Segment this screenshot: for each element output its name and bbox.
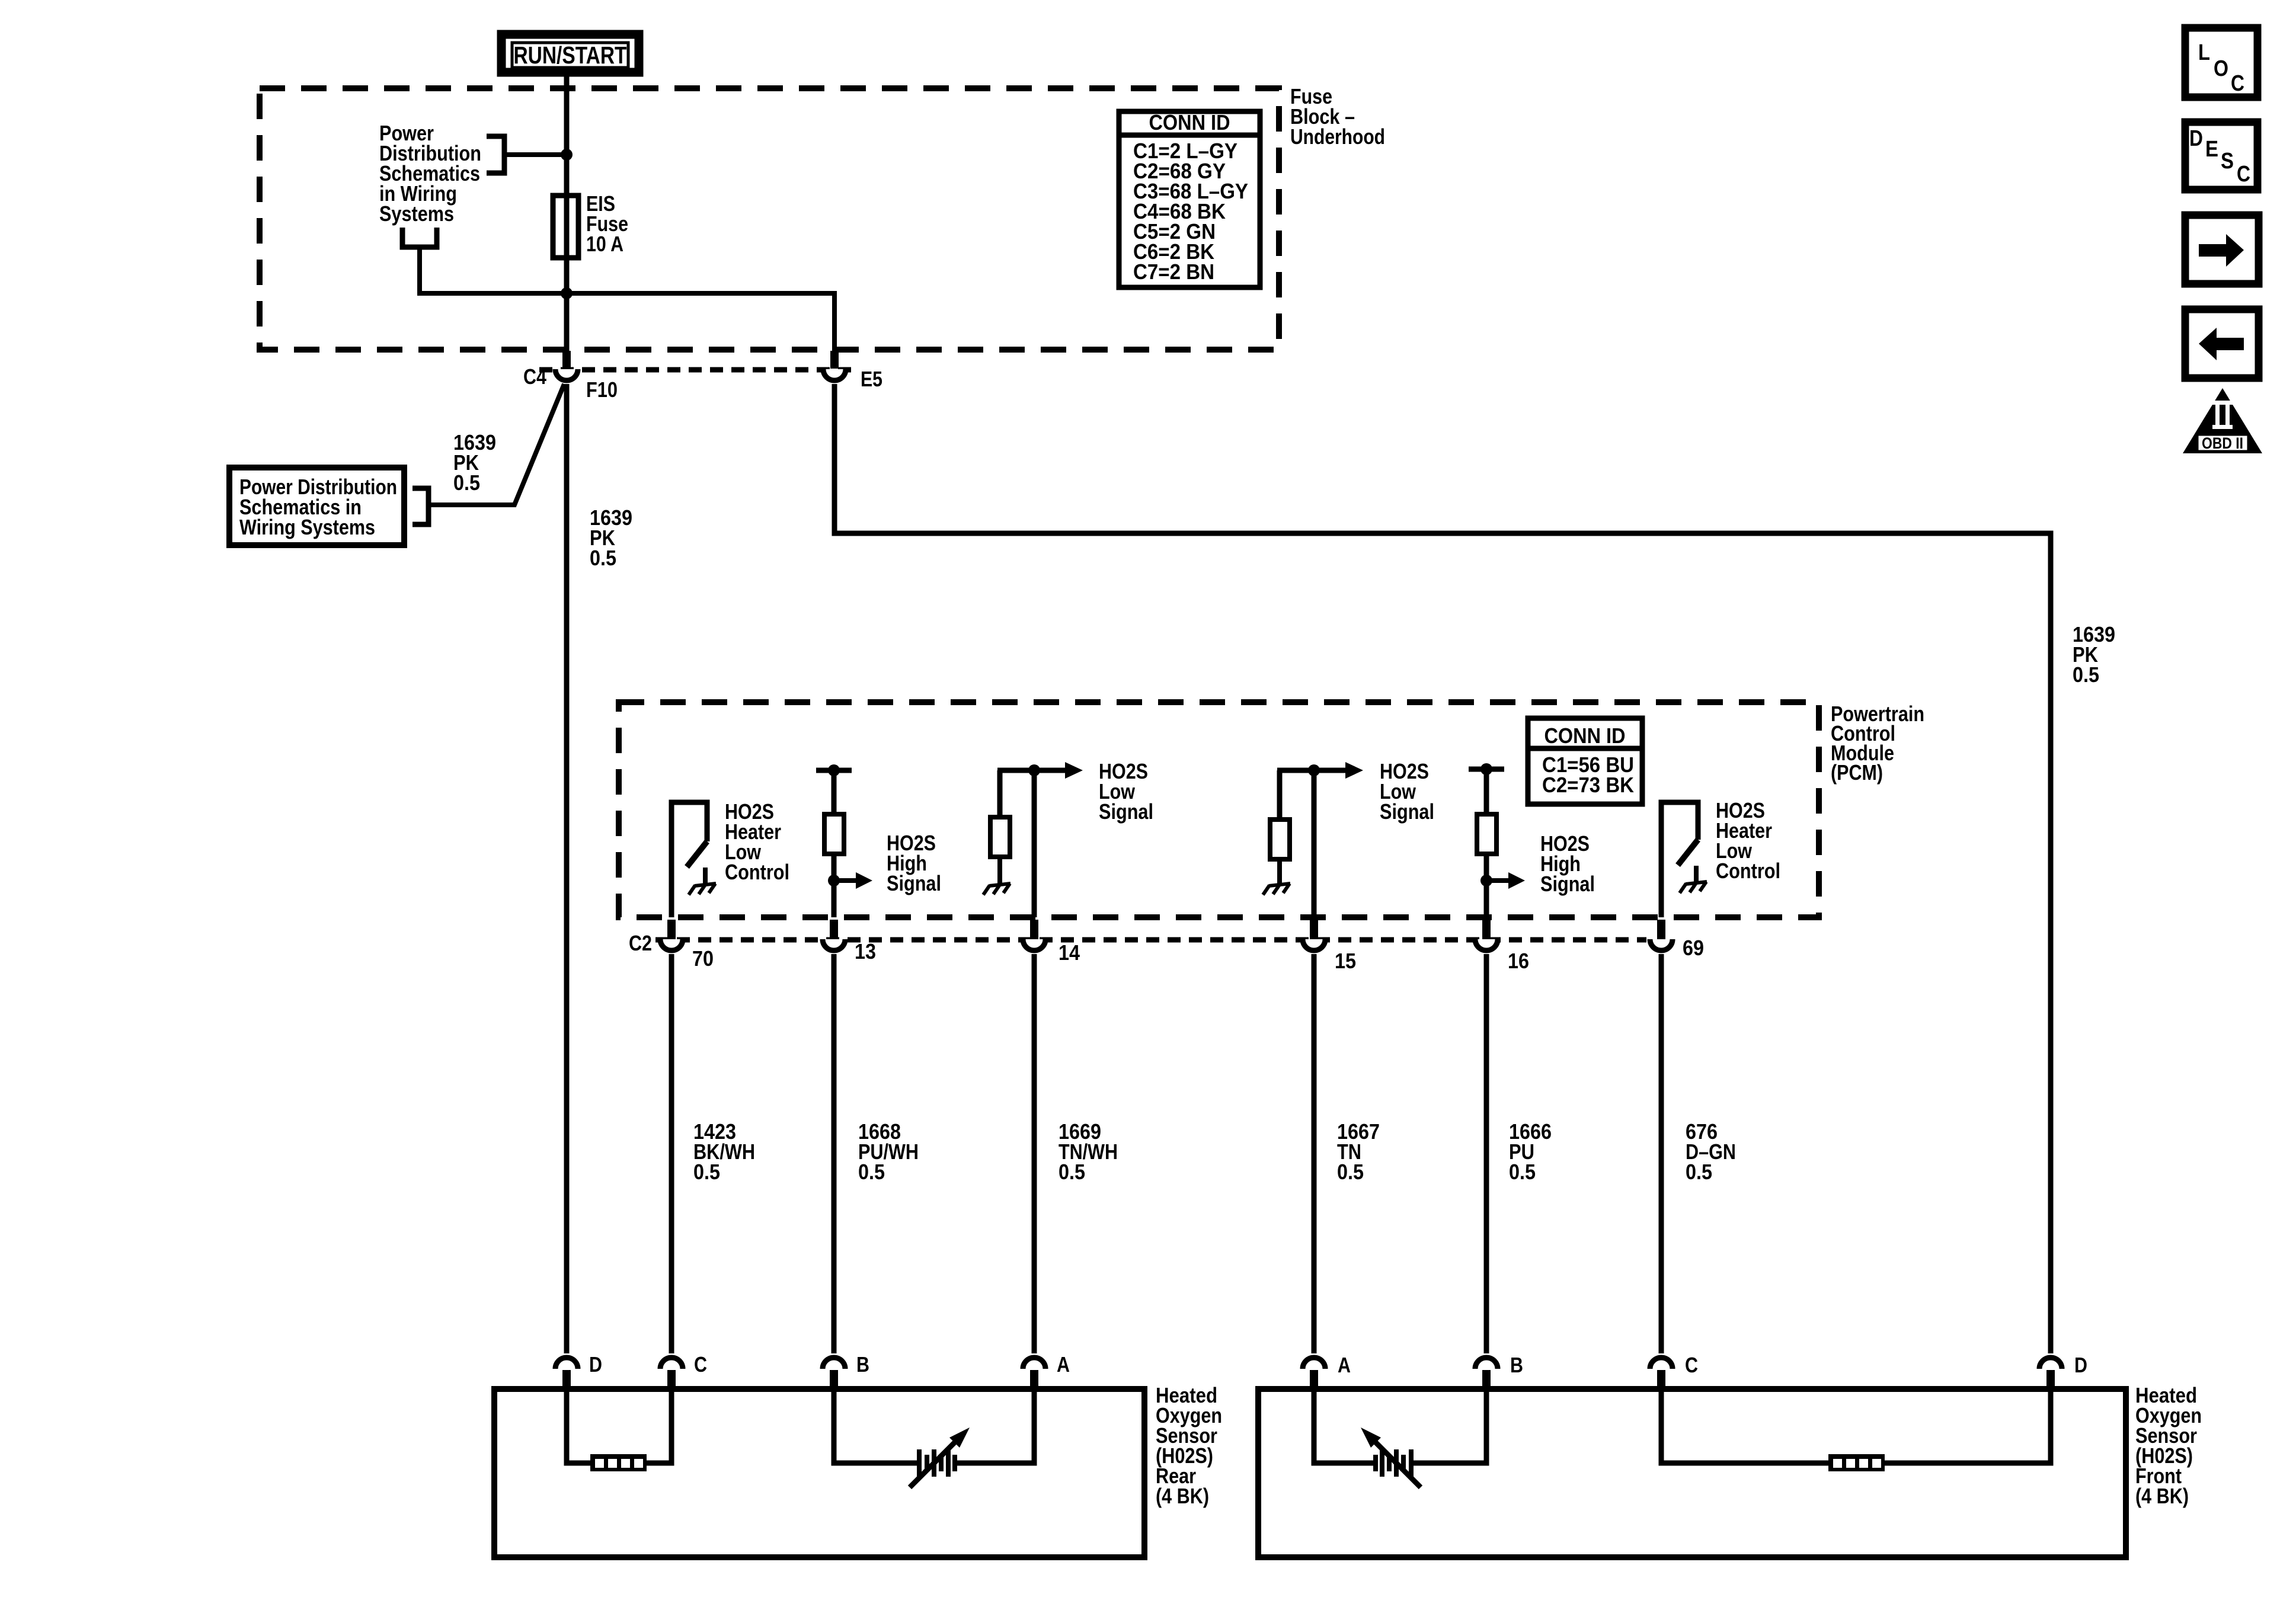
wire from bracket down to fuse output node: [420, 247, 567, 293]
connector C4 pin stub: [562, 351, 571, 369]
signal arrow pin 16: [1486, 872, 1525, 889]
svg-text:F10: F10: [586, 377, 618, 402]
svg-text:B: B: [856, 1352, 869, 1377]
label Powertrain Control Module (PCM): [1831, 702, 1924, 785]
svg-text:(PCM): (PCM): [1831, 760, 1883, 785]
PCM dashed box: [619, 702, 1819, 917]
node junction at power distribution tap: [561, 149, 573, 161]
svg-text:D: D: [2074, 1353, 2087, 1377]
svg-text:0.5: 0.5: [453, 470, 480, 495]
ground symbol pin 15: [1263, 884, 1290, 895]
wire pin 14 inside PCM: [1032, 770, 1037, 917]
svg-text:0.5: 0.5: [1686, 1160, 1712, 1184]
ground symbol pin 14: [983, 884, 1011, 895]
resistor pin 15: [1270, 820, 1290, 859]
resistor pin 13: [824, 814, 844, 854]
switch HO2S heater low control left (pin 70): [671, 802, 707, 917]
connector C2 cavity 13: [823, 920, 845, 950]
label Power Distribution Schematics in Wiring Systems: [379, 121, 481, 226]
sensing element rear sensor bars: [919, 1449, 955, 1477]
label wire 1667 TN 0.5: [1337, 1119, 1380, 1184]
svg-text:A: A: [1057, 1352, 1070, 1377]
label Heated Oxygen Sensor rear: [1156, 1383, 1222, 1508]
label EIS Fuse 10 A: [586, 191, 628, 256]
ground stub pin 14: [997, 857, 1002, 884]
svg-text:D: D: [589, 1352, 602, 1377]
connector C2 cavity 14: [1023, 920, 1045, 950]
terminal bar pin 16: [1469, 767, 1504, 772]
signal arrow pin 13: [834, 872, 872, 889]
svg-text:CONN ID: CONN ID: [1544, 724, 1626, 748]
connector boundary dotted line C4 to E5: [539, 367, 858, 373]
connector E5 arc: [823, 369, 846, 380]
svg-text:13: 13: [855, 939, 876, 964]
svg-text:Signal: Signal: [1380, 799, 1434, 824]
callout box Power Distribution Schematics in Wiring Systems: [229, 468, 404, 545]
label Heated Oxygen Sensor front: [2135, 1383, 2202, 1508]
label Fuse Block Underhood: [1290, 84, 1385, 149]
ground symbol right switch: [1680, 882, 1707, 893]
svg-text:0.5: 0.5: [1059, 1160, 1085, 1184]
signal arrow pin 15: [1345, 762, 1363, 779]
connector cavity rear sensor B: [823, 1358, 845, 1390]
svg-text:C7=2 BN: C7=2 BN: [1133, 260, 1214, 284]
heater element rear sensor wires: [567, 1389, 671, 1463]
svg-text:15: 15: [1335, 949, 1356, 973]
svg-text:C: C: [2231, 71, 2244, 96]
resistor pin 16: [1477, 814, 1496, 854]
connector E5 pin stub: [830, 351, 839, 369]
icon DESC box: [2185, 122, 2257, 190]
svg-text:0.5: 0.5: [858, 1160, 885, 1184]
svg-text:CONN ID: CONN ID: [1149, 110, 1230, 135]
svg-text:C: C: [694, 1352, 707, 1377]
wire 1639 PK from E5 across top to HO2S front pin D: [834, 384, 2051, 1353]
heater element front sensor: [1828, 1454, 1885, 1471]
connector cavity rear sensor A: [1023, 1358, 1045, 1390]
wire fuse output to E5 drop: [567, 293, 834, 352]
label HO2S Low Signal pin 15: [1380, 759, 1434, 824]
svg-text:Control: Control: [725, 860, 789, 884]
svg-text:Underhood: Underhood: [1290, 124, 1385, 149]
label wire 676 D-GN 0.5: [1686, 1119, 1736, 1184]
svg-text:C: C: [2237, 162, 2250, 187]
sensing element rear sensor arrow: [910, 1427, 970, 1487]
svg-text:Control: Control: [1716, 859, 1780, 883]
node junction at fuse output: [561, 287, 573, 299]
node dot pin 13 top: [828, 764, 840, 776]
connector cavity rear sensor D: [555, 1358, 578, 1390]
pull resistor leg pin 14: [997, 770, 1003, 818]
svg-text:(4 BK): (4 BK): [1156, 1484, 1209, 1508]
fuse block underhood dashed box: [260, 88, 1279, 350]
label wire 1639 PK 0.5 branch: [453, 430, 496, 495]
icon LOC box: [2185, 28, 2257, 97]
connector boundary dotted line C2: [655, 937, 1646, 943]
wire 676 D-GN pin69 to front sensor C: [1659, 954, 1664, 1353]
svg-text:A: A: [1338, 1353, 1351, 1377]
svg-text:0.5: 0.5: [1337, 1160, 1364, 1184]
connector cavity front sensor A: [1303, 1358, 1325, 1390]
connector C2 cavity 16: [1475, 920, 1498, 950]
svg-text:E5: E5: [861, 367, 882, 391]
CONN ID table PCM: [1528, 718, 1642, 804]
label wire 1423 BK/WH 0.5: [693, 1119, 755, 1184]
icon forward arrow box: [2185, 215, 2259, 284]
pull resistor leg pin 15: [1277, 770, 1283, 820]
power source box RUN/START: [501, 34, 639, 72]
ground symbol left switch: [689, 884, 716, 895]
sensing element front sensor bars: [1376, 1449, 1411, 1477]
connector cavity front sensor B: [1475, 1358, 1498, 1390]
CONN ID table fuse block: [1119, 110, 1260, 287]
svg-text:E: E: [2205, 137, 2218, 162]
wire 1666 PU pin16 to front sensor B: [1484, 954, 1489, 1353]
heater element front sensor wires: [1661, 1389, 2051, 1463]
node dot pin 13 arrow: [828, 875, 840, 886]
node dot pin 14: [1028, 764, 1040, 776]
wire 1669 TN/WH pin14 to rear sensor A: [1032, 954, 1037, 1353]
resistor pin 14: [990, 817, 1010, 857]
svg-text:16: 16: [1508, 949, 1529, 973]
top rail pin 15: [1277, 768, 1346, 773]
svg-text:0.5: 0.5: [590, 546, 616, 570]
svg-text:C2: C2: [629, 931, 652, 955]
bracket to power distribution box: [412, 488, 428, 524]
svg-text:0.5: 0.5: [693, 1160, 720, 1184]
icon back arrow box: [2185, 309, 2259, 378]
sensing element rear sensor wires: [834, 1389, 1034, 1463]
switch blade left: [687, 841, 707, 867]
svg-text:C2=73 BK: C2=73 BK: [1542, 773, 1634, 797]
label HO2S Low Signal pin 14: [1099, 759, 1153, 824]
wire 1639 PK from C4 to HO2S rear pin D: [564, 384, 570, 1353]
svg-text:Signal: Signal: [887, 871, 941, 895]
svg-text:L: L: [2198, 40, 2210, 65]
svg-text:B: B: [1510, 1353, 1523, 1377]
wire pin 16 inside PCM: [1484, 769, 1489, 917]
bracket to Power Distribution Schematics callout: [487, 136, 504, 173]
connector C4 cavity F10 arc: [555, 369, 578, 380]
icon OBD II triangle: [2183, 388, 2262, 453]
connector cavity front sensor C: [1650, 1358, 1673, 1390]
node dot pin 15: [1308, 764, 1320, 776]
svg-text:OBD II: OBD II: [2202, 434, 2243, 452]
wire 1423 BK/WH pin70 to rear sensor C: [669, 954, 674, 1353]
heater element rear sensor: [590, 1454, 647, 1471]
label wire 1639 PK 0.5 main drop: [590, 505, 632, 570]
label wire 1666 PU 0.5: [1509, 1119, 1552, 1184]
connector cavity front sensor D: [2039, 1358, 2062, 1390]
label HO2S High Signal right: [1540, 831, 1595, 896]
svg-text:RUN/START: RUN/START: [514, 41, 627, 69]
ground stub right switch: [1694, 866, 1699, 882]
fuse EIS 10A: [553, 196, 578, 258]
terminal bar pin 13: [816, 768, 852, 773]
svg-text:O: O: [2214, 56, 2228, 81]
svg-text:Systems: Systems: [379, 201, 454, 226]
sensing element front sensor wires: [1314, 1389, 1486, 1463]
sensing element front sensor arrow: [1361, 1427, 1421, 1487]
svg-text:0.5: 0.5: [1509, 1160, 1536, 1184]
svg-text:D: D: [2189, 126, 2203, 151]
node dot pin 16 arrow: [1480, 875, 1492, 886]
wire 1667 TN pin15 to front sensor A: [1312, 954, 1317, 1353]
node dot pin 16 top: [1480, 763, 1492, 775]
connector C2 cavity 15: [1303, 920, 1325, 950]
svg-text:14: 14: [1059, 940, 1080, 965]
label wire 1639 PK 0.5 right side: [2073, 622, 2115, 687]
svg-text:70: 70: [692, 946, 714, 971]
connector C2 cavity 70: [660, 920, 683, 950]
bracket below label to fuse output wire: [402, 228, 437, 247]
svg-text:Signal: Signal: [1540, 872, 1595, 896]
svg-text:(4 BK): (4 BK): [2135, 1484, 2189, 1508]
connector C2 cavity 69: [1650, 920, 1673, 950]
ground stub pin 15: [1277, 859, 1282, 884]
label HO2S High Signal left: [887, 831, 941, 895]
switch HO2S heater low control right (pin 69): [1661, 802, 1698, 917]
ground stub left switch: [703, 868, 708, 884]
wire pin 15 inside PCM: [1312, 770, 1317, 917]
label wire 1669 TN/WH 0.5: [1059, 1119, 1118, 1184]
HO2S rear sensor box: [494, 1389, 1144, 1557]
svg-text:10 A: 10 A: [586, 232, 623, 256]
svg-text:C4: C4: [523, 364, 546, 389]
svg-text:S: S: [2221, 149, 2234, 174]
top rail pin 14: [997, 768, 1066, 773]
label HO2S Heater Low Control right: [1716, 798, 1780, 883]
svg-text:C: C: [1685, 1353, 1698, 1377]
connector cavity rear sensor C: [660, 1358, 683, 1390]
wire 1668 PU/WH pin13 to rear sensor B: [832, 954, 837, 1353]
label wire 1668 PU/WH 0.5: [858, 1119, 919, 1184]
label HO2S Heater Low Control left: [725, 799, 789, 884]
switch blade right: [1678, 840, 1698, 865]
signal arrow pin 14: [1065, 762, 1083, 779]
svg-text:Wiring Systems: Wiring Systems: [239, 515, 375, 539]
wire from RUN/START through fuse to C4: [564, 72, 570, 352]
wire tap to power distribution bracket: [504, 152, 567, 157]
svg-text:69: 69: [1683, 936, 1704, 960]
svg-text:0.5: 0.5: [2073, 662, 2099, 687]
HO2S front sensor box: [1258, 1389, 2126, 1557]
wire pin 13 inside PCM: [832, 770, 837, 917]
wire branch diagonal from C4 to power distribution callout: [430, 384, 564, 505]
svg-text:Signal: Signal: [1099, 799, 1153, 824]
